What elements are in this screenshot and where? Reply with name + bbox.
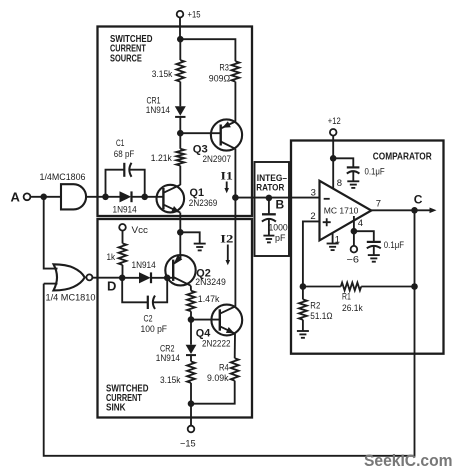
ground (pin 1) xyxy=(327,244,339,251)
svg-text:26.1k: 26.1k xyxy=(342,303,363,314)
watermark SeekIC.com xyxy=(364,452,453,470)
pin 2 label xyxy=(310,211,315,222)
svg-text:C: C xyxy=(414,193,423,207)
svg-text:MC 1710: MC 1710 xyxy=(324,205,359,215)
svg-text:2: 2 xyxy=(310,211,315,222)
svg-text:R1: R1 xyxy=(342,292,351,303)
wire junction to bypass cap xyxy=(333,158,353,167)
wire NOR output to node D xyxy=(92,277,122,279)
wire pin 8 xyxy=(333,158,342,189)
capacitor C2 100pF xyxy=(122,278,167,335)
wire CR2 to 3.15k xyxy=(190,355,192,361)
node junction -15 rail xyxy=(188,400,195,407)
wire R1 to output node xyxy=(361,286,414,288)
wire Q4 emitter to R4 xyxy=(234,334,236,359)
box: comparator enclosure xyxy=(291,141,444,354)
label INTEGRATOR xyxy=(256,172,287,193)
resistor R2 51.1ohm xyxy=(299,287,333,322)
svg-text:A: A xyxy=(11,190,21,205)
wire node to B and comparator input xyxy=(235,197,319,199)
node junction I1/I2 xyxy=(232,194,239,201)
terminal -15 xyxy=(180,404,196,450)
wire to Q2 base xyxy=(167,277,173,279)
wire junction to 3.15k xyxy=(179,39,181,60)
svg-text:SINK: SINK xyxy=(106,403,126,414)
node C output xyxy=(411,193,423,214)
node junction R2/pin2 xyxy=(300,283,307,290)
resistor 1.21k xyxy=(151,149,184,166)
svg-text:1.21k: 1.21k xyxy=(151,153,172,164)
wire Vcc to 1k xyxy=(122,231,124,244)
wire R3 to Q3 emitter xyxy=(234,82,236,122)
svg-text:4: 4 xyxy=(358,218,363,229)
terminal +12 xyxy=(328,116,341,136)
capacitor 1000pF xyxy=(262,198,288,244)
svg-text:SeekIC.com: SeekIC.com xyxy=(364,452,453,470)
wire 3.15k to CR1 xyxy=(179,82,181,107)
svg-text:2N3249: 2N3249 xyxy=(195,277,226,288)
transistor Q3 2N2907 xyxy=(193,119,242,165)
svg-text:+12: +12 xyxy=(328,116,341,127)
svg-text:9.09k: 9.09k xyxy=(207,373,229,384)
label current I2 arrow xyxy=(220,232,233,266)
pin 1 wire xyxy=(333,233,340,245)
svg-text:3.15k: 3.15k xyxy=(160,375,181,386)
wire A down to NOR input xyxy=(44,197,58,269)
wire pin4 to bypass cap 2 xyxy=(354,231,374,241)
wire node to Q2 emitter xyxy=(179,232,181,255)
wire to Q1 base xyxy=(145,196,164,198)
resistor R3 909ohm xyxy=(209,61,240,84)
node B xyxy=(266,195,285,212)
label current I1 arrow xyxy=(221,169,233,194)
svg-text:3: 3 xyxy=(311,187,316,198)
ground (R2) xyxy=(297,331,309,338)
svg-text:D: D xyxy=(107,279,116,294)
wire C down to feedback node xyxy=(414,210,416,286)
svg-text:1k: 1k xyxy=(107,252,116,263)
capacitor 0.1uF (pin4 bypass) xyxy=(367,240,404,255)
ground (1000pF) xyxy=(263,236,274,243)
wire node to Q4 base xyxy=(191,319,220,321)
box: switched current source enclosure xyxy=(98,27,253,217)
svg-text:1000: 1000 xyxy=(269,223,288,234)
svg-text:51.1Ω: 51.1Ω xyxy=(310,311,332,322)
wire R2 to ground xyxy=(302,320,304,331)
pin 7 output wire xyxy=(371,198,414,210)
label COMPARATOR xyxy=(373,151,433,162)
svg-text:1N914: 1N914 xyxy=(146,105,170,116)
terminal +15 xyxy=(177,10,201,21)
svg-text:+15: +15 xyxy=(188,10,201,21)
wire emitter node to ground xyxy=(180,232,199,243)
node junction Q1/Q2 emitters xyxy=(177,229,184,236)
wire 1k to node D xyxy=(122,265,124,278)
wire output arrow C xyxy=(415,208,437,214)
wire node to 1.21k xyxy=(179,133,181,149)
wire I2 rail (node I1 down to Q4 collector) xyxy=(234,198,236,307)
svg-text:100 pF: 100 pF xyxy=(141,324,168,335)
wire +15 to junction xyxy=(179,18,181,40)
diode 1N914 (Q2 input) xyxy=(122,260,167,283)
wire 1.47k to node Q4 base xyxy=(190,311,192,319)
label SWITCHED CURRENT SOURCE xyxy=(110,34,153,64)
svg-text:1N914: 1N914 xyxy=(156,353,180,364)
node junction C1/diode right xyxy=(141,194,148,201)
diode 1N914 (Q1 input) xyxy=(106,191,145,215)
diode CR2 1N914 xyxy=(156,344,197,364)
ground (pin8 bypass) xyxy=(347,181,359,188)
svg-text:B: B xyxy=(276,198,285,212)
node junction Q4 base xyxy=(188,316,195,323)
svg-text:3.15k: 3.15k xyxy=(152,69,173,80)
wire A to gate xyxy=(30,196,61,198)
gate U1 AND 1/4MC1806 xyxy=(40,172,87,209)
svg-text:pF: pF xyxy=(275,233,286,244)
svg-text:8: 8 xyxy=(337,178,342,189)
wire pin 2 to feedback node xyxy=(303,221,320,286)
ground (pin4 bypass) xyxy=(368,255,380,262)
svg-text:0.1μF: 0.1μF xyxy=(384,240,404,251)
ground (emitter node) xyxy=(194,244,206,251)
label SWITCHED CURRENT SINK xyxy=(106,383,149,413)
wire CR1 to node Q3base xyxy=(179,117,181,133)
svg-text:RATOR: RATOR xyxy=(256,182,284,193)
wire Q2 collector to 1.47k xyxy=(190,286,192,291)
resistor 3.15k (sink) xyxy=(160,362,195,387)
box: integrator enclosure xyxy=(255,162,290,256)
wire R4 to bottom node xyxy=(191,381,235,404)
wire +12 into comparator xyxy=(332,136,334,159)
resistor 3.15k (source) xyxy=(152,60,184,82)
svg-text:68 pF: 68 pF xyxy=(114,149,135,160)
svg-text:I1: I1 xyxy=(221,169,233,183)
node junction +12 rail xyxy=(330,155,337,162)
terminal -6 xyxy=(347,231,360,265)
capacitor C1 68pF xyxy=(106,138,145,197)
transistor Q4 2N2222 xyxy=(196,305,242,350)
wire 1.21k to Q1 collector xyxy=(179,166,181,185)
node junction A feedback tap xyxy=(40,194,47,201)
capacitor 0.1uF (pin8 bypass) xyxy=(347,167,385,182)
svg-text:1/4 MC1810: 1/4 MC1810 xyxy=(46,292,96,303)
svg-text:R3: R3 xyxy=(219,63,229,74)
node junction C1/diode left xyxy=(102,194,109,201)
node junction +15 rail xyxy=(177,36,184,43)
svg-text:2N2222: 2N2222 xyxy=(202,339,231,350)
svg-text:0.1μF: 0.1μF xyxy=(365,167,385,178)
pin 3 label xyxy=(311,187,316,198)
resistor R1 26.1k xyxy=(341,283,363,314)
svg-text:−15: −15 xyxy=(180,439,196,450)
wire junction to Q3 base xyxy=(180,132,220,134)
node CR1/1.21k/Q3-base junction xyxy=(177,130,184,137)
svg-text:1N914: 1N914 xyxy=(113,205,137,216)
svg-text:C1: C1 xyxy=(116,138,124,149)
resistor 1k xyxy=(107,243,127,265)
node junction C2 tap xyxy=(164,275,171,282)
wire feedback to NOR lower input xyxy=(44,283,58,285)
node junction pin 4 xyxy=(351,228,358,235)
svg-text:1.47k: 1.47k xyxy=(198,294,220,305)
svg-text:1/4MC1806: 1/4MC1806 xyxy=(40,172,86,183)
diode CR1 1N914 xyxy=(146,96,186,117)
svg-text:COMPARATOR: COMPARATOR xyxy=(373,151,433,162)
wire top rail to R3 branch xyxy=(180,39,235,61)
wire Q1 emitter down to sink node xyxy=(179,213,181,233)
op-amp U3 MC1710 xyxy=(320,181,372,241)
svg-text:−6: −6 xyxy=(347,255,360,266)
svg-text:2N2369: 2N2369 xyxy=(189,198,218,209)
svg-text:Vcc: Vcc xyxy=(132,225,149,236)
terminal Vcc xyxy=(119,224,148,236)
svg-text:2N2907: 2N2907 xyxy=(203,154,232,165)
wire Q3 collector down to node I1 xyxy=(234,149,236,198)
transistor Q1 2N2369 xyxy=(157,185,218,213)
node junction output feedback xyxy=(411,283,418,290)
svg-text:909Ω: 909Ω xyxy=(209,74,230,85)
pin 4 wire xyxy=(354,216,363,231)
wire AND output to loop junction xyxy=(86,196,105,198)
resistor 1.47k xyxy=(187,291,220,312)
svg-text:SOURCE: SOURCE xyxy=(110,53,142,64)
transistor Q2 2N3249 xyxy=(165,255,226,289)
svg-text:1N914: 1N914 xyxy=(132,260,156,271)
box: switched current sink enclosure xyxy=(98,219,253,418)
resistor R4 9.09k xyxy=(207,358,239,384)
wire node to R1 xyxy=(303,286,341,288)
gate U2 NOR 1/4 MC1810 xyxy=(46,264,96,303)
node A terminal xyxy=(11,190,31,205)
wire 3.15k to bottom node xyxy=(190,383,192,404)
svg-text:R4: R4 xyxy=(219,363,229,374)
wire Q4-base node down to CR2 xyxy=(190,320,192,345)
svg-text:7: 7 xyxy=(376,198,381,209)
node D xyxy=(107,275,125,294)
wire feedback C to NOR input xyxy=(44,284,415,456)
svg-text:I2: I2 xyxy=(220,232,233,246)
